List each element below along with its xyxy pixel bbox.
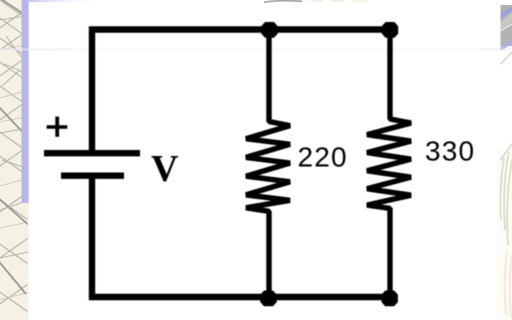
svg-text:220: 220 xyxy=(298,142,348,173)
svg-text:330: 330 xyxy=(425,136,475,167)
svg-text:V: V xyxy=(151,148,179,190)
